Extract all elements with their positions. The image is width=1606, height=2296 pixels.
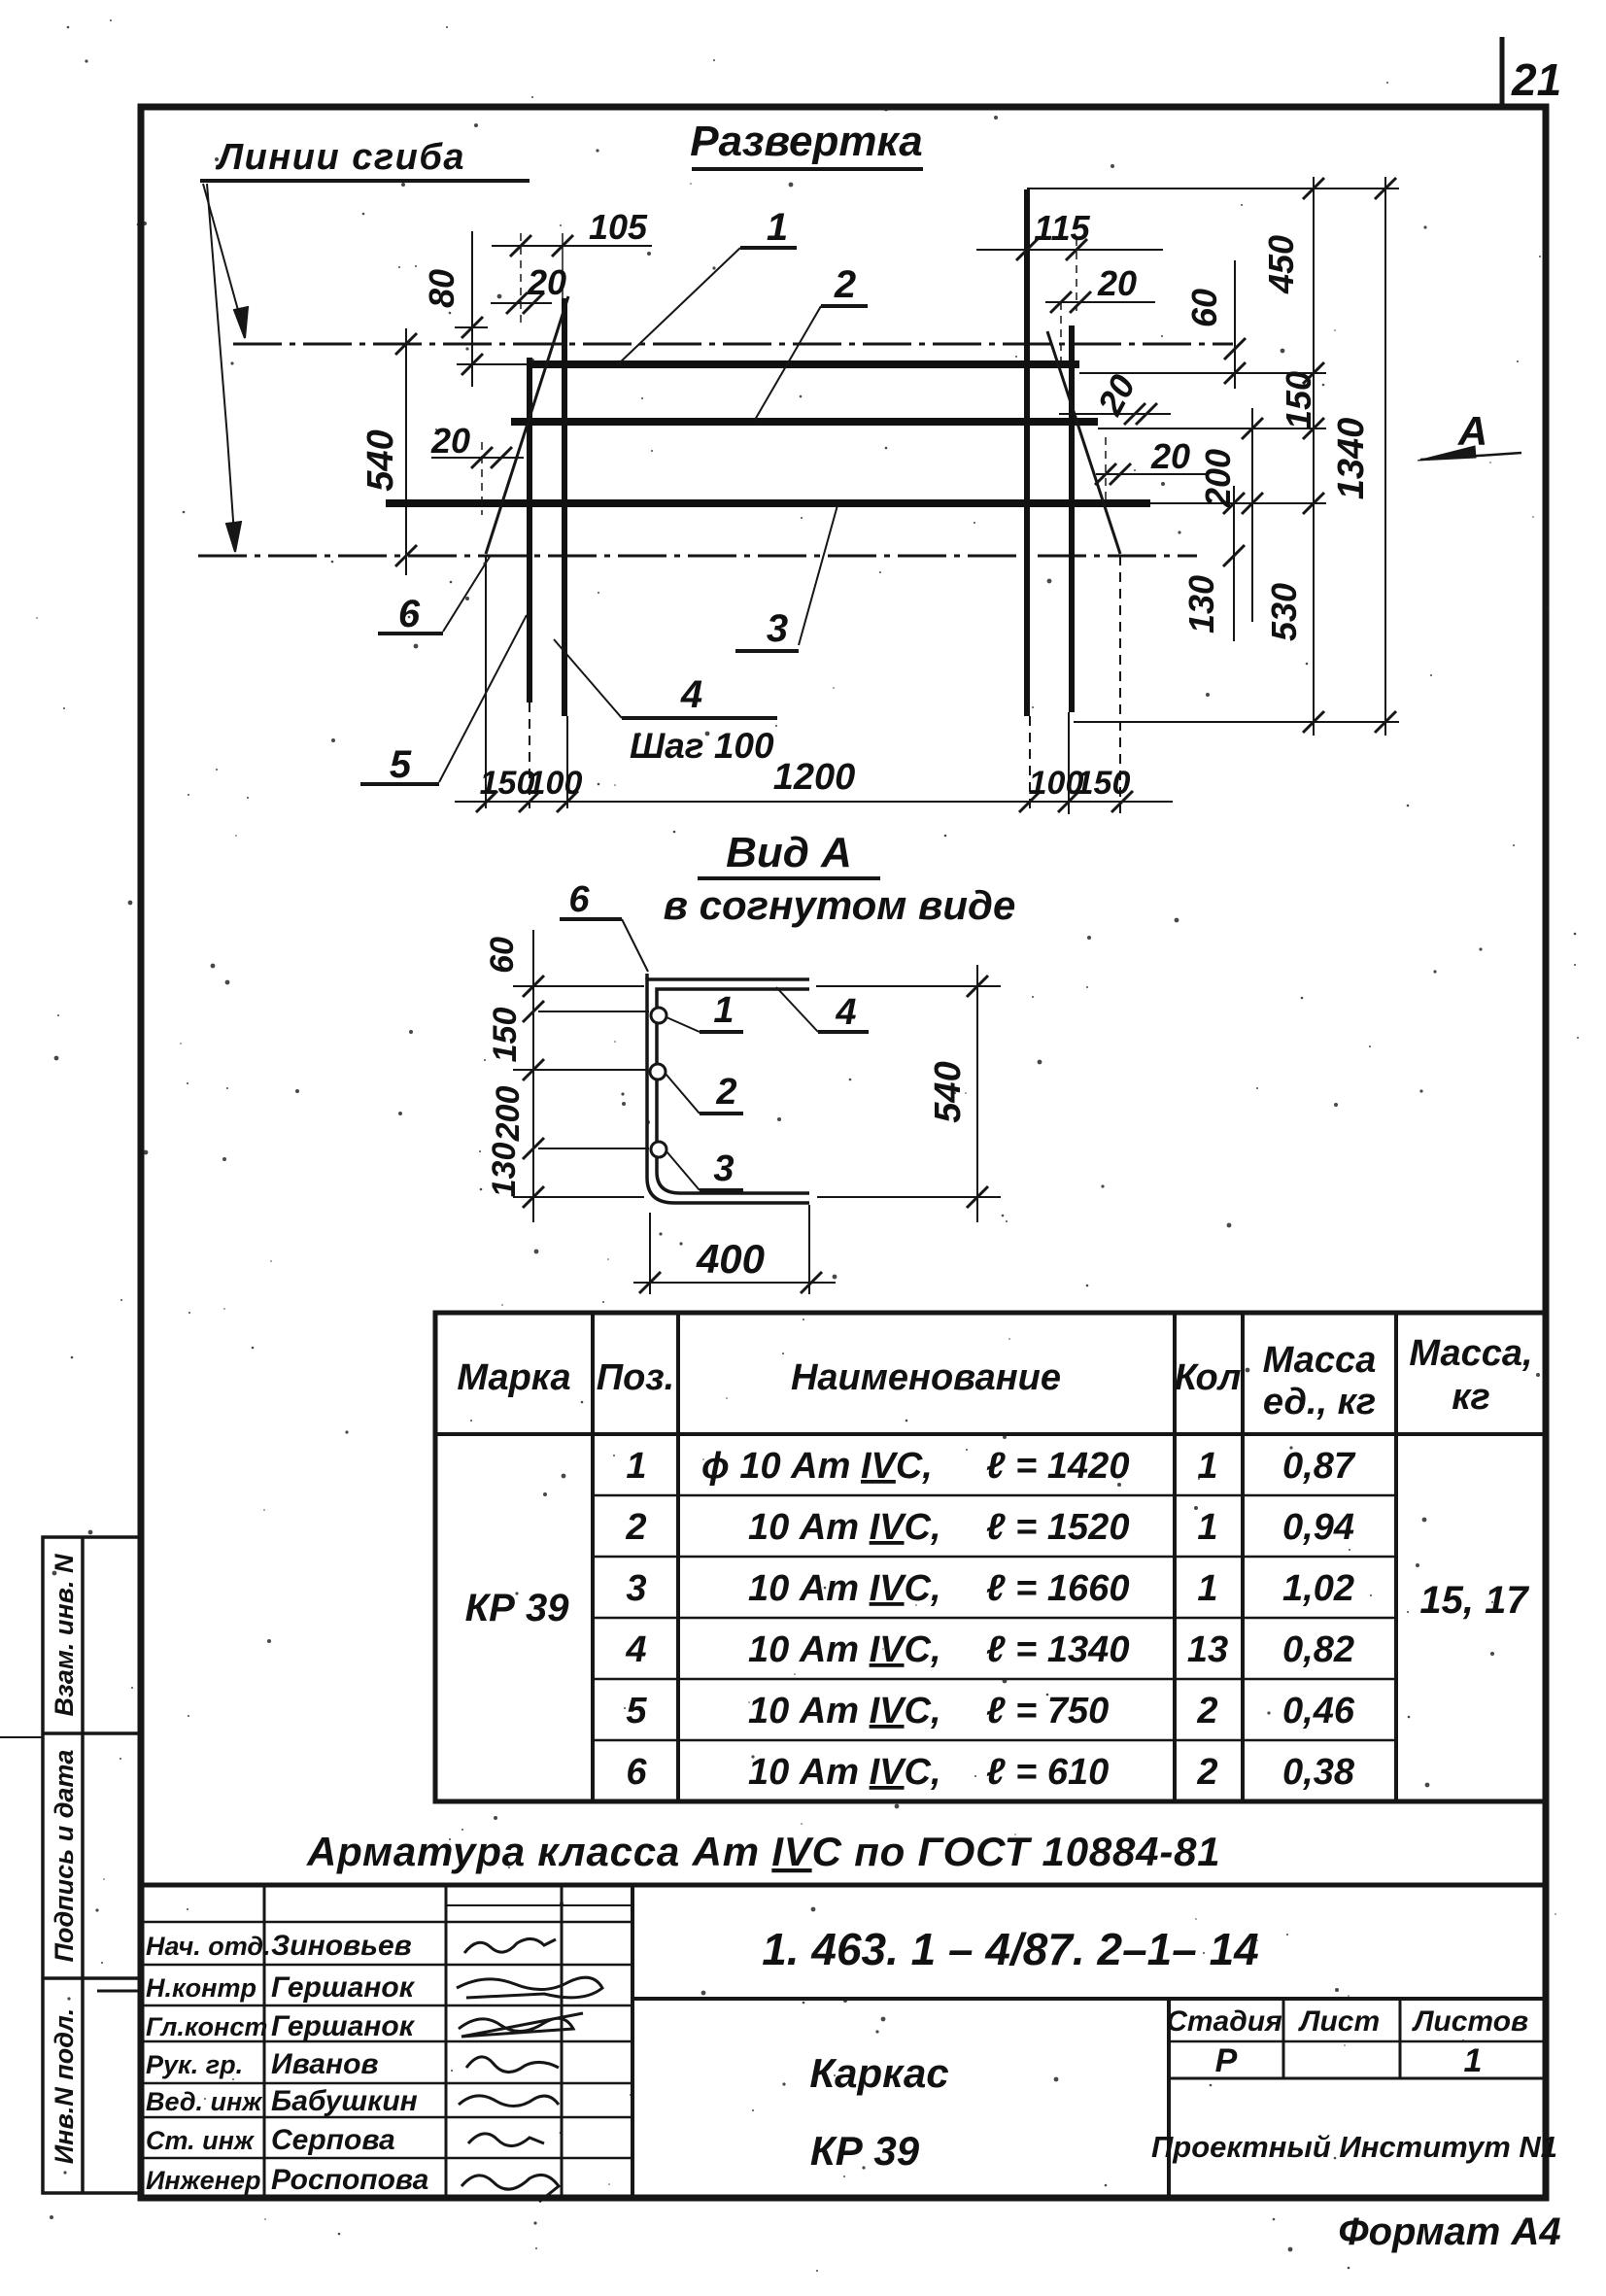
svg-text:1200: 1200 — [773, 757, 856, 798]
svg-text:20: 20 — [430, 421, 470, 461]
dimension 105 top left — [492, 233, 652, 326]
fold line 2 (dash-dot) — [198, 555, 1197, 558]
svg-text:115: 115 — [1034, 208, 1090, 248]
svg-text:Гершанок: Гершанок — [271, 2010, 416, 2042]
svg-text:3: 3 — [713, 1148, 734, 1189]
svg-text:5: 5 — [626, 1691, 647, 1731]
svg-text:80: 80 — [422, 269, 461, 308]
svg-text:10 Ат IVС,: 10 Ат IVС, — [748, 1568, 941, 1609]
dimension 115 top right — [976, 238, 1163, 311]
svg-text:2: 2 — [1196, 1691, 1217, 1731]
svg-text:21: 21 — [1511, 54, 1561, 105]
svg-text:Нач. отд.: Нач. отд. — [146, 1932, 271, 1961]
svg-text:10 Ат IVС,: 10 Ат IVС, — [748, 1629, 941, 1670]
bent plate profile — [647, 974, 809, 1203]
section label 4 — [776, 987, 869, 1033]
left dimension chain 60 150 200 130 — [513, 930, 649, 1222]
title Razvertka — [690, 118, 923, 169]
sheet number 21 box — [1500, 37, 1505, 107]
svg-text:6: 6 — [626, 1752, 647, 1793]
right extension lines — [1027, 188, 1399, 722]
svg-text:Р: Р — [1215, 2042, 1238, 2079]
svg-text:1: 1 — [1464, 2042, 1483, 2079]
bar section circles 1 2 3 — [650, 1008, 666, 1157]
svg-text:3: 3 — [626, 1568, 646, 1609]
svg-text:6: 6 — [568, 879, 590, 920]
svg-text:10 Ат IVС,: 10 Ат IVС, — [748, 1691, 941, 1731]
dimension 20 mid left — [431, 442, 524, 515]
svg-text:0,82: 0,82 — [1282, 1629, 1354, 1670]
bar position 2 (horizontal) — [511, 418, 1098, 426]
svg-text:2: 2 — [834, 263, 856, 306]
left margin strip — [43, 1537, 141, 2193]
svg-text:4: 4 — [625, 1629, 646, 1670]
dimension chain 60 / 130 — [1223, 260, 1246, 641]
bottom dimension line 150 100 1200 100 150 — [455, 791, 1173, 812]
svg-text:1. 463. 1 – 4/87. 2–1– 14: 1. 463. 1 – 4/87. 2–1– 14 — [762, 1924, 1259, 1974]
svg-text:540: 540 — [360, 429, 401, 491]
svg-text:ℓ = 1520: ℓ = 1520 — [986, 1507, 1129, 1548]
parts table grid — [435, 1313, 1546, 1801]
svg-text:Н.контр: Н.контр — [146, 1973, 256, 2003]
position label 4 with Shag 100 — [554, 639, 777, 766]
svg-text:Формат А4: Формат А4 — [1338, 2210, 1560, 2253]
position label 5 — [360, 615, 527, 786]
svg-text:105: 105 — [589, 207, 648, 247]
svg-text:кг: кг — [1452, 1377, 1490, 1418]
svg-text:4: 4 — [680, 673, 702, 716]
dimension chain 200 — [1242, 408, 1263, 622]
svg-text:4: 4 — [835, 992, 856, 1033]
fold mark left — [0, 1736, 43, 1738]
svg-text:200: 200 — [490, 1086, 527, 1143]
position label 6 — [378, 557, 490, 635]
label Linii sgiba (fold lines) — [200, 137, 530, 181]
svg-text:Инв.N подл.: Инв.N подл. — [50, 2008, 79, 2165]
svg-text:1340: 1340 — [1331, 418, 1372, 500]
svg-text:Развертка: Развертка — [690, 118, 923, 165]
svg-text:20: 20 — [1097, 263, 1137, 303]
plate edge extensions below fold 2 — [486, 556, 1120, 814]
svg-text:200: 200 — [1198, 449, 1238, 508]
svg-text:Поз.: Поз. — [597, 1357, 675, 1398]
section label 6 — [560, 879, 648, 972]
section label 1 — [666, 990, 743, 1032]
handwritten signatures — [457, 1938, 602, 2202]
svg-text:1,02: 1,02 — [1282, 1568, 1354, 1609]
svg-text:1: 1 — [1197, 1446, 1217, 1487]
svg-text:Вед. инж: Вед. инж — [146, 2087, 263, 2116]
svg-text:Арматура класса Ат IVС по: Арматура класса Ат IVС по ГОСТ 10884-81 — [306, 1829, 1220, 1874]
svg-text:130: 130 — [486, 1143, 523, 1198]
svg-text:2: 2 — [625, 1507, 646, 1548]
svg-text:Иванов: Иванов — [271, 2048, 379, 2080]
svg-text:Масса,: Масса, — [1409, 1333, 1532, 1374]
svg-text:Инженер: Инженер — [146, 2166, 260, 2195]
fold line 1 (dash-dot) — [233, 343, 1233, 346]
svg-text:ϕ 10 Ат IVС,: ϕ 10 Ат IVС, — [701, 1446, 933, 1487]
table rows — [625, 1446, 1355, 1793]
stage table — [1166, 2005, 1528, 2038]
svg-text:Гл.конст: Гл.конст — [146, 2012, 267, 2041]
svg-text:1: 1 — [626, 1446, 646, 1487]
svg-text:13: 13 — [1187, 1629, 1228, 1670]
dimension 540 between fold lines — [395, 328, 417, 575]
slanted plate edges at bends — [486, 296, 1120, 554]
svg-text:60: 60 — [484, 937, 521, 974]
view arrow A — [1418, 446, 1521, 461]
svg-text:КР 39: КР 39 — [810, 2128, 920, 2174]
page frame — [141, 107, 1546, 2198]
svg-text:Взам. инв. N: Взам. инв. N — [50, 1554, 79, 1716]
svg-text:Стадия: Стадия — [1166, 2005, 1282, 2038]
dimension 20 lower right — [1095, 437, 1207, 505]
svg-text:Серпова: Серпова — [271, 2124, 395, 2156]
svg-text:Рук. гр.: Рук. гр. — [146, 2050, 243, 2079]
title Vid A — [664, 829, 1016, 928]
svg-text:0,87: 0,87 — [1282, 1446, 1356, 1487]
bar position 1 (horizontal) — [528, 360, 1079, 368]
svg-text:Масса: Масса — [1263, 1340, 1377, 1381]
svg-text:Подпись и дата: Подпись и дата — [50, 1750, 79, 1963]
svg-text:60: 60 — [1184, 289, 1224, 327]
svg-text:5: 5 — [390, 743, 412, 786]
svg-text:2: 2 — [715, 1072, 736, 1113]
svg-text:Листов: Листов — [1412, 2005, 1528, 2038]
svg-text:Зиновьев: Зиновьев — [271, 1930, 412, 1962]
svg-text:130: 130 — [1181, 575, 1221, 634]
svg-text:Наименование: Наименование — [791, 1357, 1061, 1398]
svg-text:А: А — [1457, 408, 1487, 454]
dimension 1340 overall — [1375, 177, 1396, 736]
svg-text:ед., кг: ед., кг — [1263, 1382, 1376, 1422]
dash mark near title block — [97, 1990, 139, 1993]
title block grid — [141, 1885, 1546, 2198]
bar position 3 (horizontal) — [386, 499, 1150, 507]
section label 2 — [666, 1072, 743, 1114]
svg-text:1: 1 — [1197, 1568, 1217, 1609]
svg-text:100: 100 — [528, 765, 583, 802]
svg-text:400: 400 — [696, 1236, 765, 1282]
svg-text:Лист: Лист — [1298, 2005, 1380, 2038]
svg-text:1: 1 — [1197, 1507, 1217, 1548]
svg-text:в согнутом виде: в согнутом виде — [664, 882, 1016, 928]
svg-text:0,38: 0,38 — [1282, 1752, 1355, 1793]
svg-text:0,94: 0,94 — [1282, 1507, 1354, 1548]
svg-text:Каркас: Каркас — [809, 2050, 948, 2096]
svg-text:10 Ат IVС,: 10 Ат IVС, — [748, 1507, 941, 1548]
vertical bars position 4 — [530, 189, 1072, 716]
dimension 80 left — [455, 231, 528, 387]
svg-text:15, 17: 15, 17 — [1419, 1579, 1529, 1622]
svg-text:2: 2 — [1196, 1752, 1217, 1793]
svg-text:Роспопова: Роспопова — [271, 2164, 428, 2196]
signature rows — [146, 1932, 271, 2195]
svg-text:Шаг 100: Шаг 100 — [630, 726, 774, 766]
svg-text:450: 450 — [1261, 235, 1301, 294]
svg-text:Бабушкин: Бабушкин — [271, 2085, 418, 2117]
section label 3 — [666, 1148, 743, 1190]
svg-text:150: 150 — [487, 1008, 524, 1063]
svg-text:Кол: Кол — [1175, 1357, 1242, 1398]
dimension 20 upper left — [491, 292, 552, 314]
svg-text:10 Ат IVС,: 10 Ат IVС, — [748, 1752, 941, 1793]
svg-text:ℓ = 610: ℓ = 610 — [986, 1752, 1109, 1793]
svg-text:6: 6 — [398, 593, 421, 635]
dimension 20 upper right — [1045, 291, 1155, 369]
svg-text:ℓ = 1340: ℓ = 1340 — [986, 1629, 1129, 1670]
position label 2 — [755, 263, 868, 420]
svg-text:Марка: Марка — [457, 1357, 570, 1398]
svg-text:ℓ = 1660: ℓ = 1660 — [986, 1568, 1129, 1609]
svg-text:20: 20 — [1150, 436, 1190, 476]
svg-text:Вид А: Вид А — [726, 829, 852, 876]
svg-text:Гершанок: Гершанок — [271, 1971, 416, 2004]
svg-text:0,46: 0,46 — [1282, 1691, 1355, 1731]
svg-text:Проектный Институт N1: Проектный Институт N1 — [1151, 2130, 1557, 2164]
svg-text:Ст. инж: Ст. инж — [146, 2126, 256, 2155]
table headers — [457, 1333, 1532, 1422]
leader arrows from Linii sgiba to fold lines — [203, 184, 248, 552]
svg-text:540: 540 — [928, 1061, 969, 1122]
svg-text:1: 1 — [767, 206, 788, 249]
svg-text:1: 1 — [713, 990, 734, 1031]
right extension lines and dimension 540 — [816, 965, 1001, 1222]
dimension chain 450 / 150 / 530 — [1303, 177, 1324, 736]
svg-text:530: 530 — [1264, 583, 1304, 641]
svg-text:150: 150 — [1076, 765, 1131, 802]
svg-text:3: 3 — [767, 607, 788, 650]
dimension 400 bottom — [633, 1205, 836, 1294]
position label 3 — [735, 505, 837, 651]
svg-text:ℓ = 750: ℓ = 750 — [986, 1691, 1109, 1731]
svg-text:20: 20 — [527, 262, 566, 302]
svg-text:Линии сгиба: Линии сгиба — [215, 137, 465, 178]
svg-text:ℓ = 1420: ℓ = 1420 — [986, 1446, 1129, 1487]
svg-text:150: 150 — [1279, 371, 1318, 429]
dimension 20 mid right (rotated) — [1059, 403, 1171, 425]
position label 1 — [618, 206, 797, 364]
